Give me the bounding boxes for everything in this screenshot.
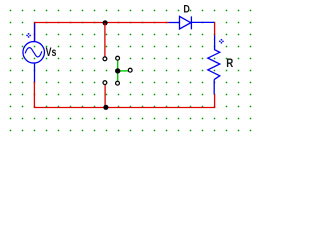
node junction bottom (103, 105, 108, 110)
node dot center of stubs (115, 68, 120, 73)
node junction top (103, 20, 108, 25)
green wire stub down (117, 71, 119, 81)
terminal open circle top of stubs (116, 56, 120, 60)
wire top rail (35, 23, 169, 42)
wire middle branch lower (104, 85, 106, 108)
terminal open circle lower-left (103, 81, 107, 85)
green wire stub right (118, 70, 128, 72)
terminal open circle right of stubs (128, 68, 132, 72)
terminal open circle upper-left (103, 57, 107, 61)
wire middle branch upper (104, 23, 106, 57)
svg-text:Vs: Vs (46, 45, 57, 59)
polarity + mark of Vs (26, 33, 31, 38)
wire bottom rail (34, 81, 214, 107)
wire right top (214, 22, 216, 35)
svg-text:R: R (226, 56, 233, 70)
resistor R (208, 35, 220, 94)
grid dots (decorative) (10, 10, 252, 132)
svg-text:D: D (183, 4, 190, 16)
diode D (169, 16, 215, 29)
terminal open circle bottom of stubs (116, 81, 120, 85)
polarity + mark of R (219, 39, 224, 44)
green wire stub up (117, 61, 119, 71)
voltage source Vs (23, 23, 45, 82)
